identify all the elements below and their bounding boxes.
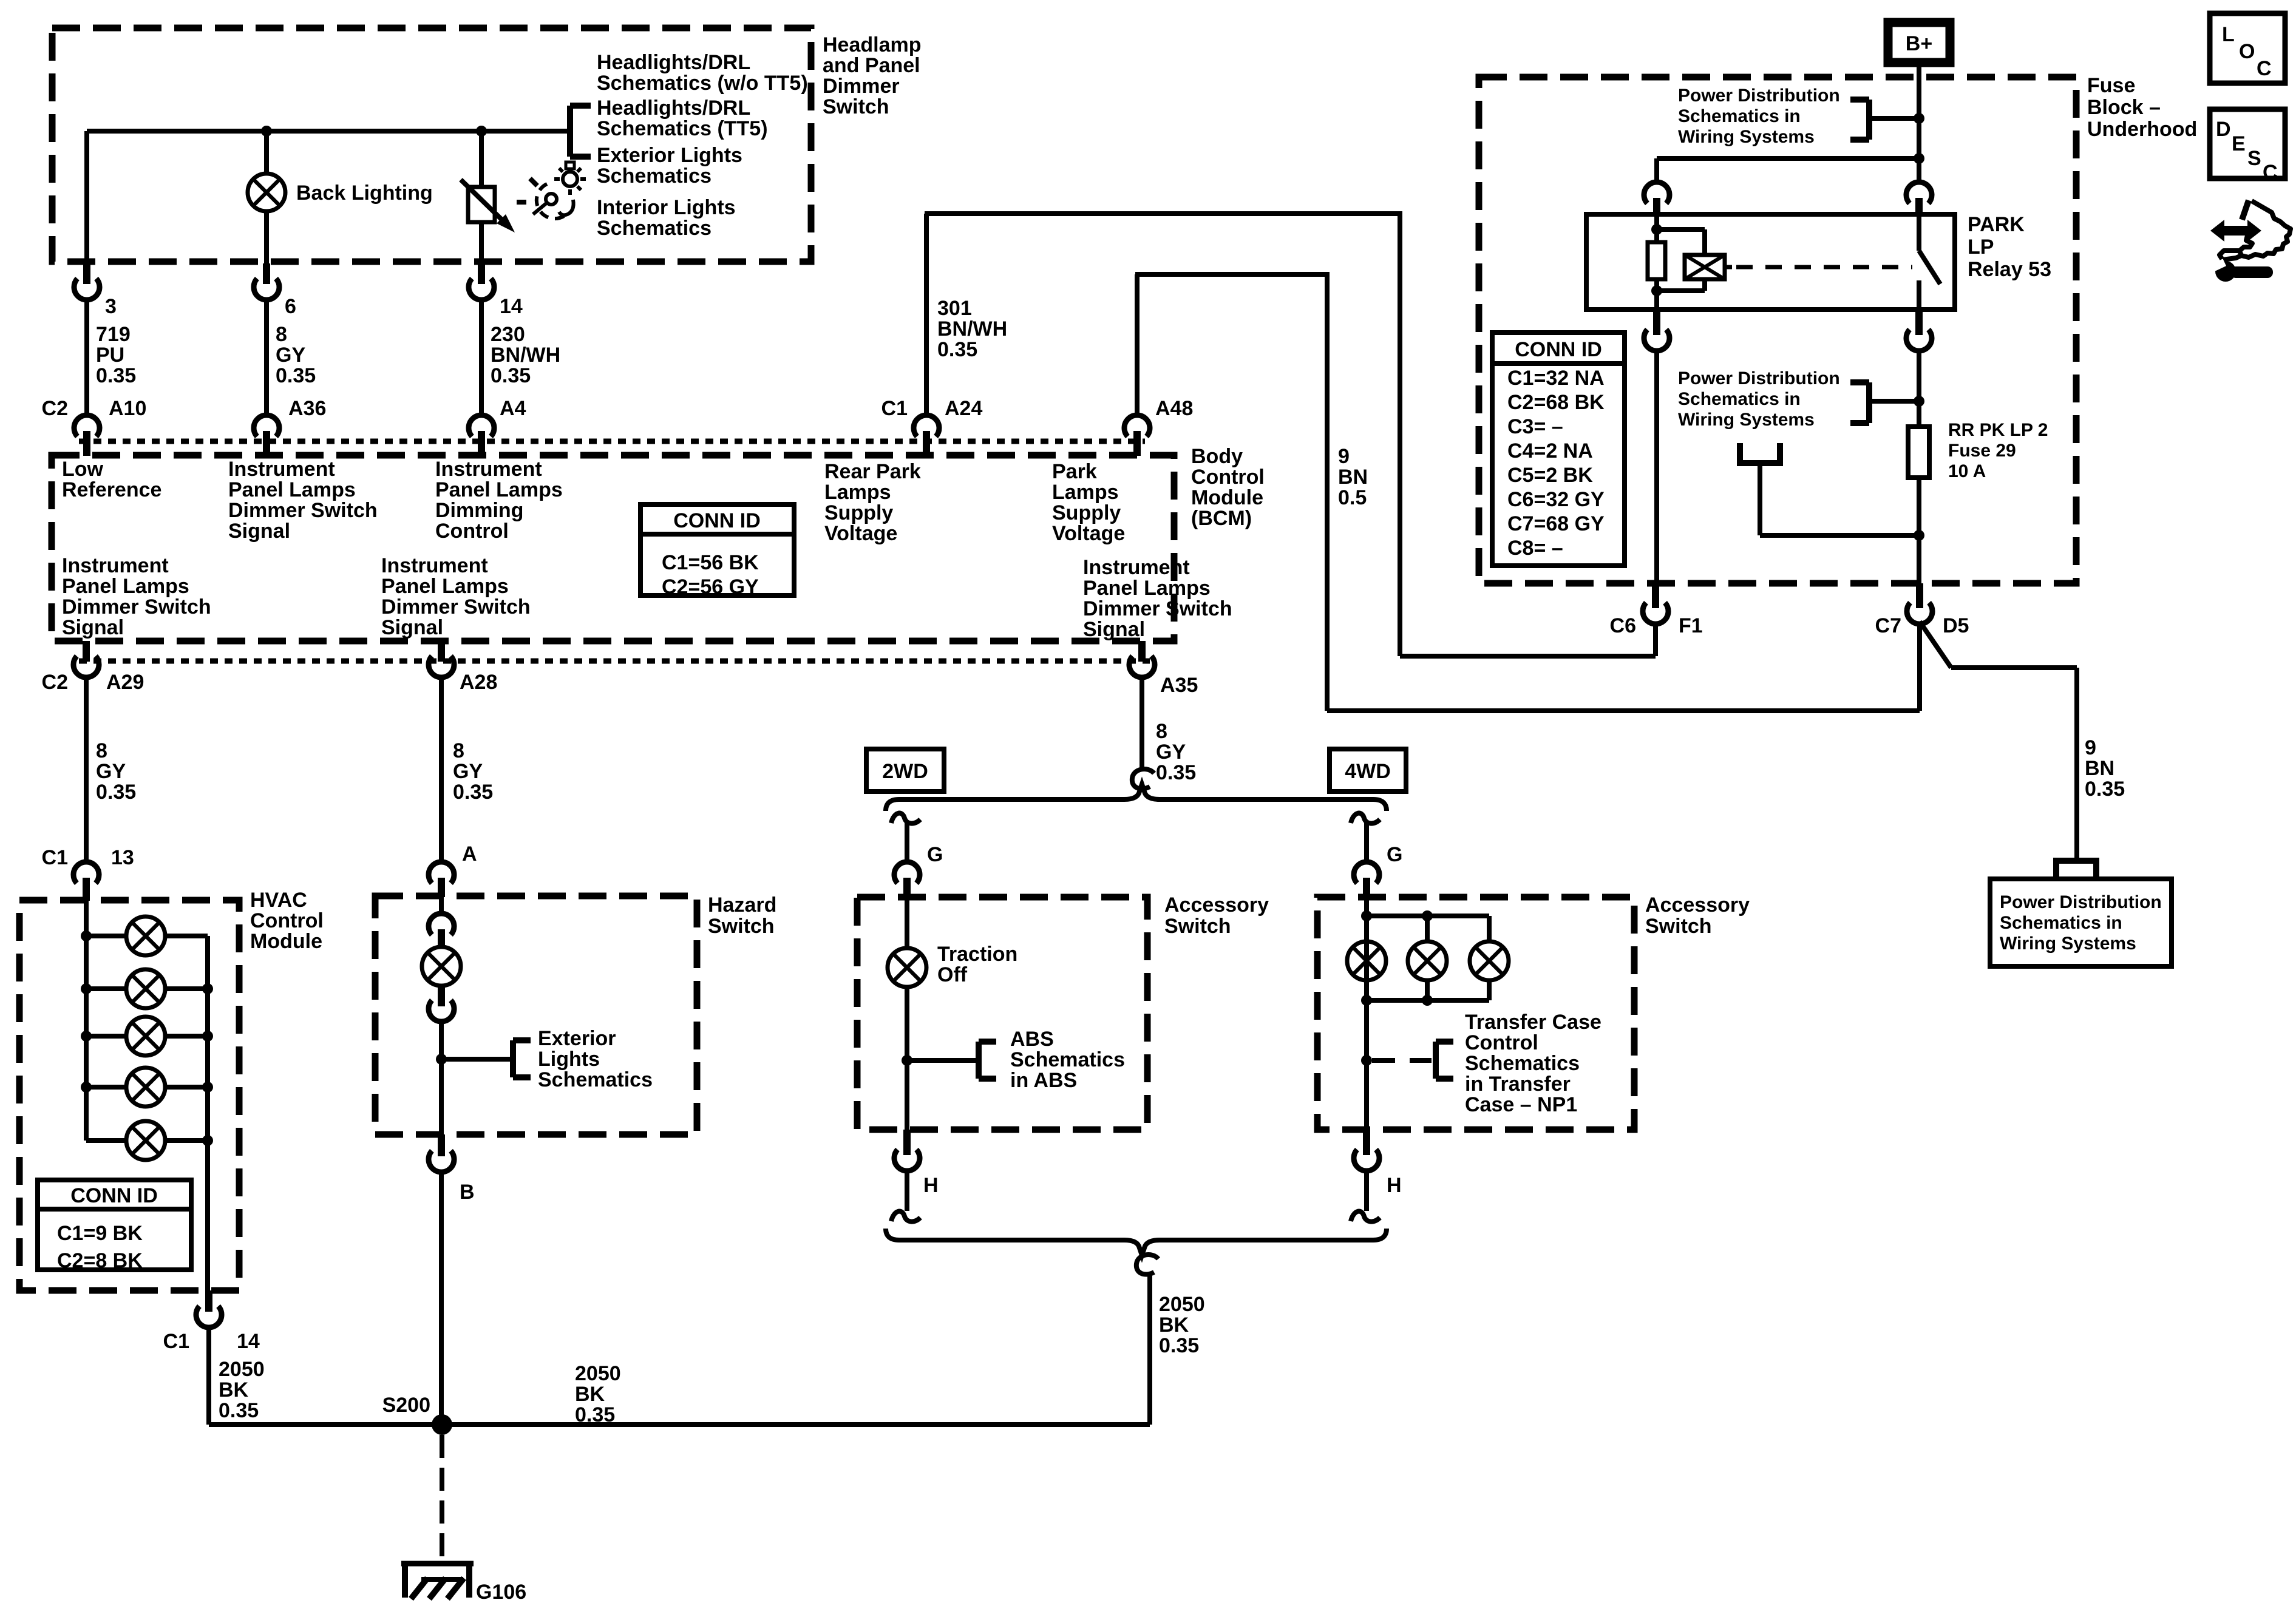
svg-text:C6: C6 (1610, 614, 1636, 637)
svg-text:O: O (2239, 40, 2255, 63)
svg-text:Park: Park (1052, 460, 1097, 483)
svg-text:Switch: Switch (1645, 915, 1712, 938)
svg-text:Body: Body (1191, 445, 1243, 468)
svg-text:Schematics in: Schematics in (2000, 913, 2122, 933)
svg-text:Low: Low (62, 458, 104, 481)
svg-text:2WD: 2WD (882, 760, 928, 783)
svg-text:in ABS: in ABS (1010, 1069, 1077, 1092)
svg-text:0.35: 0.35 (937, 338, 977, 361)
svg-text:8: 8 (1156, 720, 1167, 743)
svg-text:(BCM): (BCM) (1191, 507, 1252, 530)
svg-text:4WD: 4WD (1345, 760, 1391, 783)
svg-text:9: 9 (2085, 736, 2096, 759)
svg-text:Signal: Signal (1083, 618, 1145, 641)
svg-text:Power Distribution: Power Distribution (2000, 892, 2162, 912)
svg-text:8: 8 (96, 739, 107, 762)
svg-text:Panel Lamps: Panel Lamps (435, 478, 563, 501)
svg-text:Hazard: Hazard (708, 893, 776, 917)
svg-text:H: H (923, 1174, 939, 1197)
svg-text:Signal: Signal (228, 520, 290, 543)
svg-text:HVAC: HVAC (250, 889, 307, 912)
svg-text:C2: C2 (42, 397, 68, 420)
svg-text:Interior Lights: Interior Lights (597, 196, 736, 219)
svg-text:Schematics (TT5): Schematics (TT5) (597, 117, 768, 140)
svg-text:Schematics in: Schematics in (1678, 106, 1801, 126)
svg-text:Power Distribution: Power Distribution (1678, 368, 1840, 388)
svg-text:A24: A24 (945, 397, 982, 420)
svg-text:Panel Lamps: Panel Lamps (62, 575, 189, 598)
svg-text:C2=56 GY: C2=56 GY (662, 575, 759, 598)
svg-text:14: 14 (237, 1330, 260, 1353)
svg-text:Module: Module (250, 930, 322, 953)
svg-text:Switch: Switch (708, 915, 775, 938)
svg-text:8: 8 (453, 739, 464, 762)
svg-text:C: C (2263, 161, 2278, 184)
svg-text:Dimmer Switch: Dimmer Switch (228, 499, 378, 522)
svg-text:BK: BK (219, 1378, 249, 1402)
svg-text:A28: A28 (460, 671, 497, 694)
svg-text:A: A (462, 842, 477, 866)
svg-text:Instrument: Instrument (62, 554, 169, 577)
svg-text:0.35: 0.35 (1159, 1334, 1199, 1357)
svg-text:GY: GY (453, 760, 483, 783)
svg-text:H: H (1387, 1174, 1402, 1197)
svg-text:Fuse 29: Fuse 29 (1948, 441, 2016, 461)
svg-text:Underhood: Underhood (2087, 118, 2197, 141)
svg-text:Panel Lamps: Panel Lamps (228, 478, 356, 501)
svg-text:Supply: Supply (1052, 501, 1121, 524)
svg-text:Transfer Case: Transfer Case (1465, 1011, 1601, 1034)
svg-text:0.35: 0.35 (453, 781, 493, 804)
svg-text:0.5: 0.5 (1338, 486, 1367, 509)
svg-text:CONN ID: CONN ID (1515, 338, 1602, 361)
svg-text:C1: C1 (163, 1330, 189, 1353)
svg-text:Reference: Reference (62, 478, 161, 501)
svg-text:Schematics in: Schematics in (1678, 389, 1801, 409)
svg-text:C7: C7 (1875, 614, 1901, 637)
svg-text:C: C (2257, 57, 2272, 80)
svg-text:14: 14 (500, 295, 523, 318)
svg-text:6: 6 (285, 295, 296, 318)
svg-text:in Transfer: in Transfer (1465, 1073, 1571, 1096)
svg-text:Dimmer Switch: Dimmer Switch (62, 595, 211, 619)
svg-text:GY: GY (276, 344, 305, 367)
svg-text:G: G (927, 843, 943, 866)
svg-text:0.35: 0.35 (96, 781, 136, 804)
svg-text:G: G (1387, 843, 1402, 866)
svg-text:C1=56 BK: C1=56 BK (662, 551, 759, 574)
svg-text:BN: BN (1338, 466, 1368, 489)
svg-text:Power Distribution: Power Distribution (1678, 86, 1840, 106)
svg-text:Block –: Block – (2087, 96, 2161, 119)
svg-text:Fuse: Fuse (2087, 74, 2135, 97)
svg-text:D: D (2216, 118, 2231, 141)
svg-text:Signal: Signal (381, 616, 443, 639)
svg-text:A36: A36 (288, 397, 326, 420)
svg-text:C8= –: C8= – (1507, 537, 1563, 560)
svg-text:ABS: ABS (1010, 1028, 1054, 1051)
svg-text:LP: LP (1968, 236, 1994, 259)
svg-text:Dimmer: Dimmer (823, 75, 900, 98)
svg-text:Traction: Traction (937, 943, 1017, 966)
svg-text:C6=32 GY: C6=32 GY (1507, 488, 1605, 511)
svg-text:2050: 2050 (1159, 1293, 1205, 1316)
svg-text:E: E (2232, 132, 2246, 155)
svg-text:Instrument: Instrument (1083, 556, 1190, 579)
svg-text:Schematics: Schematics (538, 1068, 653, 1091)
svg-text:BN/WH: BN/WH (937, 317, 1007, 341)
svg-text:C2=68 BK: C2=68 BK (1507, 391, 1605, 414)
svg-text:Voltage: Voltage (1052, 522, 1125, 545)
svg-text:Relay 53: Relay 53 (1968, 258, 2051, 281)
svg-text:Supply: Supply (824, 501, 893, 524)
svg-text:230: 230 (491, 323, 525, 346)
svg-text:Dimmer Switch: Dimmer Switch (381, 595, 531, 619)
svg-text:Dimmer Switch: Dimmer Switch (1083, 597, 1232, 620)
svg-text:BN/WH: BN/WH (491, 344, 560, 367)
svg-text:Accessory: Accessory (1645, 893, 1750, 917)
svg-text:Schematics: Schematics (1465, 1052, 1580, 1075)
svg-text:Exterior Lights: Exterior Lights (597, 144, 742, 167)
svg-text:Schematics (w/o TT5): Schematics (w/o TT5) (597, 72, 808, 95)
svg-text:2050: 2050 (575, 1362, 621, 1385)
svg-text:Headlamp: Headlamp (823, 33, 922, 56)
svg-text:Rear Park: Rear Park (824, 460, 921, 483)
svg-text:C3= –: C3= – (1507, 415, 1563, 438)
svg-text:and Panel: and Panel (823, 54, 920, 77)
svg-text:Switch: Switch (823, 95, 889, 118)
svg-text:C1: C1 (42, 846, 68, 869)
svg-text:Voltage: Voltage (824, 522, 897, 545)
svg-text:719: 719 (96, 323, 131, 346)
svg-text:S: S (2247, 147, 2261, 170)
svg-text:PARK: PARK (1968, 213, 2025, 236)
svg-text:C1=9 BK: C1=9 BK (57, 1222, 143, 1245)
svg-text:C2=8 BK: C2=8 BK (57, 1249, 143, 1272)
svg-text:CONN ID: CONN ID (70, 1184, 158, 1207)
svg-text:Case – NP1: Case – NP1 (1465, 1093, 1577, 1116)
svg-text:Control: Control (435, 520, 509, 543)
svg-text:8: 8 (276, 323, 287, 346)
svg-text:Instrument: Instrument (435, 458, 542, 481)
svg-text:0.35: 0.35 (276, 364, 316, 387)
svg-text:C7=68 GY: C7=68 GY (1507, 512, 1605, 535)
svg-text:A10: A10 (109, 397, 146, 420)
svg-text:0.35: 0.35 (219, 1399, 259, 1422)
svg-text:0.35: 0.35 (1156, 761, 1196, 784)
svg-text:Module: Module (1191, 486, 1263, 509)
svg-text:Panel Lamps: Panel Lamps (1083, 577, 1211, 600)
svg-text:10 A: 10 A (1948, 461, 1986, 481)
svg-text:Lamps: Lamps (1052, 481, 1119, 504)
svg-text:Headlights/DRL: Headlights/DRL (597, 51, 750, 74)
svg-text:9: 9 (1338, 445, 1350, 468)
svg-text:L: L (2222, 23, 2235, 46)
svg-text:A35: A35 (1160, 674, 1198, 697)
svg-text:RR PK LP 2: RR PK LP 2 (1948, 420, 2048, 440)
svg-text:Wiring Systems: Wiring Systems (1678, 410, 1815, 430)
svg-text:Dimming: Dimming (435, 499, 523, 522)
svg-text:C5=2 BK: C5=2 BK (1507, 464, 1593, 487)
svg-text:A4: A4 (500, 397, 526, 420)
svg-text:F1: F1 (1679, 614, 1703, 637)
svg-text:0.35: 0.35 (491, 364, 531, 387)
svg-text:A48: A48 (1155, 397, 1193, 420)
svg-text:Control: Control (1465, 1031, 1538, 1054)
svg-text:GY: GY (96, 760, 126, 783)
svg-text:B+: B+ (1906, 32, 1932, 55)
svg-text:Lights: Lights (538, 1048, 600, 1071)
svg-text:A29: A29 (106, 671, 144, 694)
svg-text:Back Lighting: Back Lighting (296, 181, 433, 205)
svg-text:BK: BK (575, 1383, 605, 1406)
svg-text:0.35: 0.35 (2085, 778, 2125, 801)
svg-text:Schematics: Schematics (1010, 1048, 1125, 1071)
svg-text:PU: PU (96, 344, 124, 367)
svg-text:C1: C1 (881, 397, 908, 420)
svg-text:Accessory: Accessory (1164, 893, 1269, 917)
svg-text:C1=32 NA: C1=32 NA (1507, 367, 1605, 390)
svg-text:0.35: 0.35 (96, 364, 136, 387)
svg-text:C4=2 NA: C4=2 NA (1507, 439, 1593, 463)
svg-text:Control: Control (1191, 466, 1265, 489)
svg-text:Lamps: Lamps (824, 481, 891, 504)
svg-text:Schematics: Schematics (597, 217, 712, 240)
svg-text:D5: D5 (1943, 614, 1969, 637)
svg-text:Off: Off (937, 963, 968, 986)
svg-text:Instrument: Instrument (228, 458, 335, 481)
svg-text:Control: Control (250, 909, 324, 932)
svg-text:Schematics: Schematics (597, 164, 712, 188)
svg-text:Instrument: Instrument (381, 554, 488, 577)
svg-text:Signal: Signal (62, 616, 124, 639)
svg-text:3: 3 (105, 295, 117, 318)
svg-text:BN: BN (2085, 757, 2114, 780)
svg-text:Panel Lamps: Panel Lamps (381, 575, 509, 598)
svg-text:Wiring Systems: Wiring Systems (1678, 127, 1815, 147)
svg-text:Headlights/DRL: Headlights/DRL (597, 97, 750, 120)
svg-text:CONN ID: CONN ID (673, 509, 761, 532)
svg-text:GY: GY (1156, 741, 1186, 764)
svg-text:S200: S200 (382, 1394, 430, 1417)
svg-text:Wiring Systems: Wiring Systems (2000, 934, 2136, 954)
svg-text:C2: C2 (42, 671, 68, 694)
svg-text:G106: G106 (476, 1581, 526, 1604)
svg-text:2050: 2050 (219, 1358, 265, 1381)
svg-text:13: 13 (111, 846, 134, 869)
svg-text:301: 301 (937, 297, 972, 320)
svg-text:B: B (460, 1181, 475, 1204)
svg-text:Switch: Switch (1164, 915, 1231, 938)
svg-text:Exterior: Exterior (538, 1027, 616, 1050)
svg-text:BK: BK (1159, 1314, 1189, 1337)
